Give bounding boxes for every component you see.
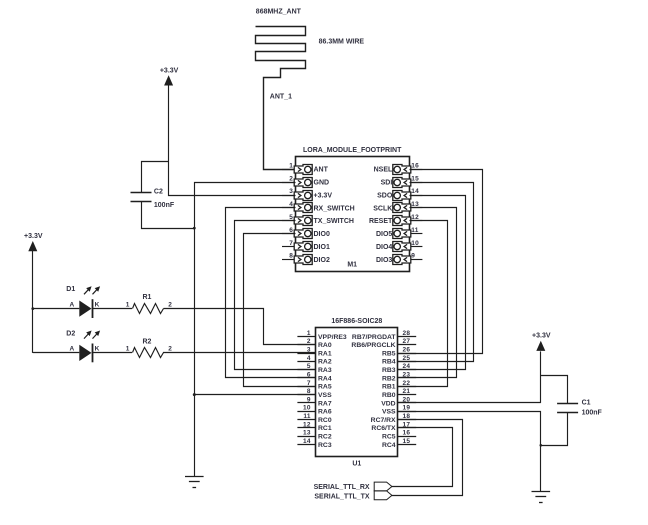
svg-text:12: 12 (303, 421, 311, 428)
svg-text:RA7: RA7 (318, 400, 332, 407)
svg-text:+3.3V: +3.3V (24, 233, 43, 240)
svg-text:11: 11 (303, 413, 311, 420)
svg-text:DIO5: DIO5 (376, 231, 392, 238)
svg-text:16: 16 (411, 162, 419, 169)
svg-text:RB2: RB2 (382, 375, 396, 382)
svg-text:SDO: SDO (377, 192, 393, 199)
svg-text:R2: R2 (143, 338, 152, 345)
svg-text:SERIAL_TTL_TX: SERIAL_TTL_TX (314, 493, 370, 500)
svg-text:RC4: RC4 (382, 442, 396, 449)
svg-text:ANT: ANT (314, 167, 329, 174)
svg-text:14: 14 (303, 438, 311, 445)
svg-text:RA6: RA6 (318, 409, 332, 416)
svg-text:2: 2 (289, 175, 293, 182)
svg-text:27: 27 (403, 338, 411, 345)
svg-text:C1: C1 (582, 400, 591, 407)
svg-text:DIO4: DIO4 (376, 244, 392, 251)
svg-text:+3.3V: +3.3V (314, 192, 333, 199)
svg-text:26: 26 (403, 347, 411, 354)
svg-text:21: 21 (403, 388, 411, 395)
svg-text:1: 1 (126, 346, 130, 353)
svg-text:A: A (70, 346, 75, 353)
svg-text:RC6/TX: RC6/TX (371, 425, 396, 432)
svg-text:+3.3V: +3.3V (532, 333, 551, 340)
svg-text:RA5: RA5 (318, 384, 332, 391)
svg-text:SERIAL_TTL_RX: SERIAL_TTL_RX (314, 484, 370, 491)
svg-text:22: 22 (403, 380, 411, 387)
svg-text:6: 6 (289, 227, 293, 234)
svg-text:100nF: 100nF (154, 202, 175, 209)
svg-text:K: K (95, 346, 100, 353)
svg-text:16F886-SOIC28: 16F886-SOIC28 (331, 318, 382, 325)
svg-text:NSEL: NSEL (374, 167, 393, 174)
svg-text:ANT_1: ANT_1 (270, 94, 292, 101)
svg-text:RC3: RC3 (318, 442, 332, 449)
svg-text:RB1: RB1 (382, 384, 396, 391)
svg-text:+3.3V: +3.3V (160, 67, 179, 74)
svg-text:8: 8 (289, 253, 293, 260)
svg-text:R1: R1 (143, 294, 152, 301)
svg-text:VDD: VDD (381, 400, 395, 407)
svg-text:2: 2 (168, 301, 172, 308)
svg-text:RESET: RESET (369, 218, 393, 225)
svg-text:RB6/PRGCLK: RB6/PRGCLK (351, 342, 395, 349)
svg-text:25: 25 (403, 355, 411, 362)
svg-text:86.3MM WIRE: 86.3MM WIRE (319, 39, 365, 46)
svg-text:VPP/RE3: VPP/RE3 (318, 334, 347, 341)
svg-text:M1: M1 (347, 262, 357, 269)
svg-text:VSS: VSS (382, 409, 396, 416)
svg-text:3: 3 (289, 188, 293, 195)
svg-text:16: 16 (403, 430, 411, 437)
svg-text:DIO1: DIO1 (314, 244, 330, 251)
svg-text:A: A (70, 301, 75, 308)
svg-text:RC5: RC5 (382, 434, 396, 441)
svg-text:9: 9 (307, 396, 311, 403)
svg-text:9: 9 (411, 253, 415, 260)
svg-text:10: 10 (303, 405, 311, 412)
svg-text:RA2: RA2 (318, 359, 332, 366)
svg-text:SDI: SDI (381, 180, 393, 187)
svg-text:13: 13 (303, 430, 311, 437)
svg-text:LORA_MODULE_FOOTPRINT: LORA_MODULE_FOOTPRINT (303, 147, 402, 154)
svg-text:19: 19 (403, 405, 411, 412)
svg-text:100nF: 100nF (582, 410, 603, 417)
svg-text:1: 1 (307, 330, 311, 337)
svg-text:K: K (95, 301, 100, 308)
svg-text:RB0: RB0 (382, 392, 396, 399)
svg-text:RB5: RB5 (382, 350, 396, 357)
svg-text:868MHZ_ANT: 868MHZ_ANT (256, 9, 302, 16)
svg-text:D2: D2 (66, 330, 75, 337)
svg-text:RB4: RB4 (382, 359, 396, 366)
svg-text:28: 28 (403, 330, 411, 337)
svg-text:RA0: RA0 (318, 342, 332, 349)
svg-text:RC2: RC2 (318, 434, 332, 441)
svg-text:RC0: RC0 (318, 417, 332, 424)
svg-text:RA1: RA1 (318, 350, 332, 357)
svg-text:VSS: VSS (318, 392, 332, 399)
svg-text:GND: GND (314, 180, 330, 187)
svg-text:RB7/PRGDAT: RB7/PRGDAT (352, 334, 397, 341)
svg-text:11: 11 (411, 227, 419, 234)
svg-text:15: 15 (411, 175, 419, 182)
svg-text:U1: U1 (352, 460, 361, 467)
svg-text:10: 10 (411, 240, 419, 247)
svg-text:TX_SWITCH: TX_SWITCH (314, 218, 354, 225)
svg-text:7: 7 (289, 240, 293, 247)
svg-text:C2: C2 (154, 189, 163, 196)
svg-text:2: 2 (168, 346, 172, 353)
svg-text:DIO0: DIO0 (314, 231, 330, 238)
svg-text:14: 14 (411, 188, 419, 195)
svg-text:RA4: RA4 (318, 375, 332, 382)
svg-text:RB3: RB3 (382, 367, 396, 374)
svg-text:15: 15 (403, 438, 411, 445)
svg-text:1: 1 (289, 162, 293, 169)
svg-text:DIO2: DIO2 (314, 257, 330, 264)
svg-text:RA3: RA3 (318, 367, 332, 374)
svg-text:DIO3: DIO3 (376, 257, 392, 264)
svg-text:7: 7 (307, 380, 311, 387)
svg-text:4: 4 (307, 355, 311, 362)
svg-text:RX_SWITCH: RX_SWITCH (314, 205, 355, 212)
svg-text:1: 1 (126, 301, 130, 308)
svg-text:RC1: RC1 (318, 425, 332, 432)
svg-text:RC7/RX: RC7/RX (371, 417, 396, 424)
svg-text:D1: D1 (66, 286, 75, 293)
svg-text:SCLK: SCLK (373, 205, 392, 212)
